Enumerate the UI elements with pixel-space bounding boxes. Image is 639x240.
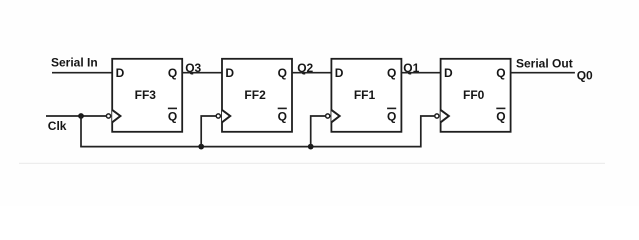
- wire clock tap FF0: [421, 116, 435, 147]
- flip-flop FF1 body: [331, 59, 401, 132]
- svg-text:FF1: FF1: [354, 88, 376, 102]
- svg-text:D: D: [116, 66, 125, 80]
- FF3 clock triangle: [112, 110, 120, 122]
- junction dot clock tap FF1: [308, 144, 314, 150]
- svg-text:Q: Q: [278, 66, 287, 80]
- svg-text:Serial Out: Serial Out: [516, 56, 573, 70]
- svg-text:FF3: FF3: [135, 88, 157, 102]
- FF2 clock bubble: [216, 114, 220, 118]
- FF1 clock triangle: [331, 110, 339, 122]
- wire FF0.Q to Serial Out: [511, 72, 575, 74]
- svg-text:Q: Q: [278, 110, 287, 124]
- FF0 clock triangle: [441, 110, 449, 122]
- svg-text:D: D: [444, 66, 453, 80]
- wire FF3.Q to FF2.D: [182, 72, 222, 74]
- svg-text:Q: Q: [387, 66, 396, 80]
- FF0 pin Qbar: [496, 108, 505, 123]
- svg-text:Q0: Q0: [577, 68, 593, 82]
- wire clock tap FF2: [201, 116, 216, 147]
- FF3 clock bubble: [106, 114, 110, 118]
- svg-text:Q: Q: [168, 110, 177, 124]
- FF3 pin Qbar: [168, 108, 177, 123]
- svg-text:D: D: [335, 66, 344, 80]
- FF2 clock triangle: [222, 110, 230, 122]
- svg-text:Q: Q: [496, 66, 505, 80]
- FF1 clock bubble: [326, 114, 330, 118]
- flip-flop FF0 body: [441, 59, 511, 132]
- wire FF2.Q to FF1.D: [292, 72, 331, 74]
- FF2 pin Qbar: [278, 108, 287, 123]
- wire FF1.Q to FF0.D: [401, 72, 440, 74]
- junction dot Clk tee: [78, 113, 84, 119]
- FF0 clock bubble: [435, 114, 439, 118]
- svg-text:Q: Q: [168, 66, 177, 80]
- svg-text:D: D: [225, 66, 234, 80]
- svg-text:FF0: FF0: [463, 88, 485, 102]
- svg-text:Q: Q: [387, 110, 396, 124]
- wire clock rail: [80, 146, 421, 148]
- flip-flop FF2 body: [222, 59, 292, 132]
- wire clock tap FF1: [311, 116, 326, 147]
- svg-text:FF2: FF2: [244, 88, 266, 102]
- wire Clk input: [46, 115, 106, 117]
- flip-flop FF3 body: [112, 59, 182, 132]
- svg-text:Q: Q: [496, 110, 505, 124]
- junction dot clock tap FF2: [198, 144, 204, 150]
- wire Serial In to FF3.D: [52, 72, 112, 74]
- svg-text:Serial In: Serial In: [51, 56, 98, 70]
- FF1 pin Qbar: [387, 108, 396, 123]
- wire Clk vertical drop: [80, 116, 82, 147]
- svg-text:Clk: Clk: [48, 119, 67, 133]
